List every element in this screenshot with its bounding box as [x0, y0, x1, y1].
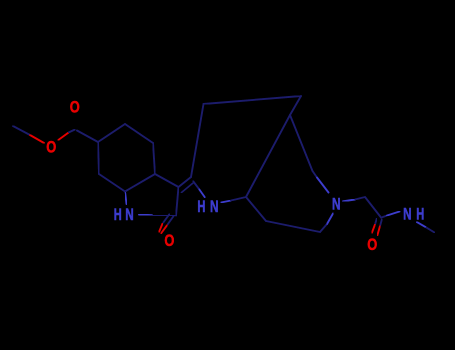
bond N4 to terminal methyl: [417, 222, 435, 233]
svg-text:N: N: [125, 205, 134, 224]
svg-text:H: H: [416, 204, 424, 223]
bond CH to anilino N2: [193, 181, 205, 198]
benzene ring of oxindole: [98, 124, 155, 192]
long top bond T2 to T1: [204, 96, 302, 104]
bond amide C to N4: [382, 212, 400, 218]
bond carbonyl C to ring C6: [77, 131, 98, 143]
svg-text:N: N: [210, 197, 219, 216]
bond V_c to amine N3: [313, 171, 329, 193]
bond CH2 to amide C: [365, 197, 381, 218]
svg-text:O: O: [70, 97, 80, 116]
C3=CH exocyclic double bond: [179, 177, 194, 193]
bond C2 to C3: [176, 187, 179, 216]
amide C=O double bond: [372, 219, 382, 236]
lactam C2=O double bond: [159, 214, 174, 234]
svg-text:H: H: [197, 197, 205, 216]
svg-text:O: O: [164, 231, 174, 250]
ester C=O double bond: [73, 115, 78, 128]
bond W to SW: [246, 197, 266, 221]
bond SW to V_se: [266, 221, 320, 232]
bond C3a to C3: [155, 174, 179, 187]
long bond W to apex: [246, 115, 290, 197]
svg-text:N: N: [332, 195, 341, 214]
bond N2 to ring W vertex: [221, 197, 246, 203]
svg-text:N: N: [403, 204, 412, 223]
bond N1 to C2: [139, 215, 176, 216]
svg-text:O: O: [46, 137, 56, 156]
bond apex to T2: [290, 96, 301, 115]
svg-text:O: O: [367, 235, 377, 254]
long bond T1 down to CH: [191, 104, 204, 177]
methyl C bond to ester O: [13, 126, 44, 143]
bond ester O to carbonyl C: [58, 130, 75, 141]
bond C7a to N1: [125, 192, 127, 205]
bond apex to V_c: [290, 115, 313, 171]
bond V_se to N3: [320, 214, 333, 233]
svg-text:H: H: [114, 205, 122, 224]
bond N3 to CH2: [343, 197, 365, 201]
